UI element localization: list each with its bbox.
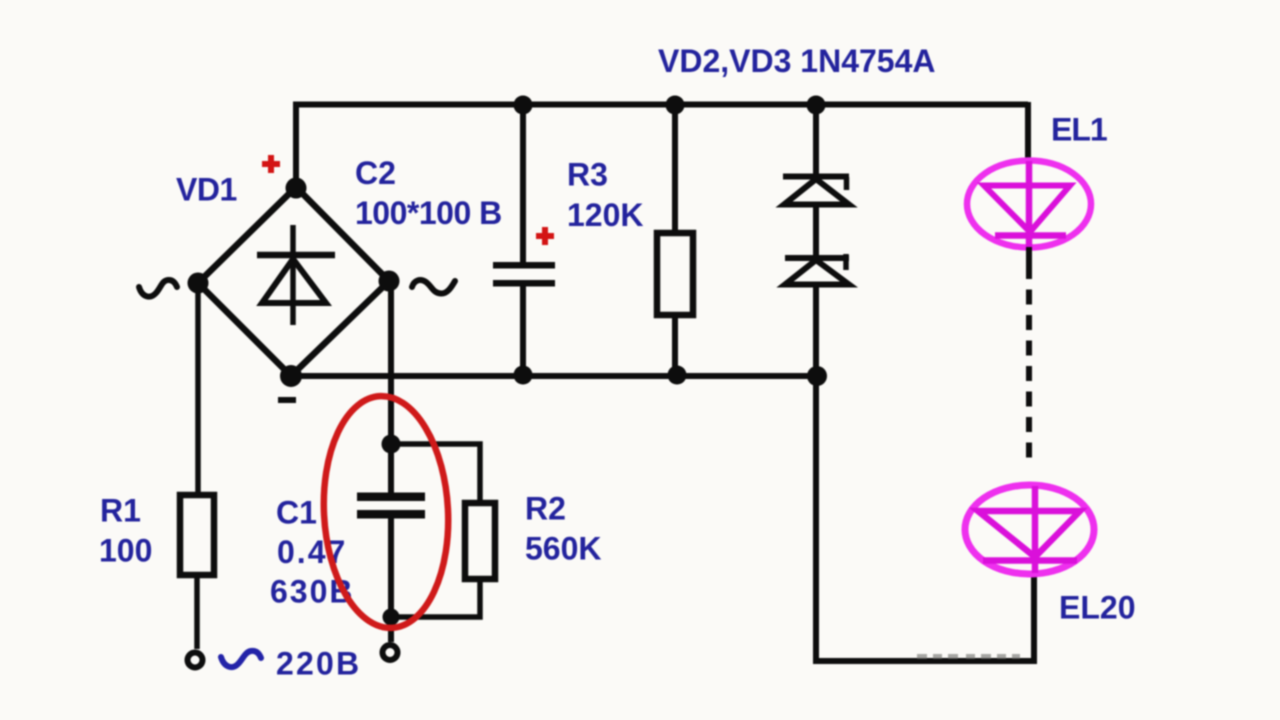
resistor R1 — [180, 495, 214, 575]
AC squiggle blue — [221, 651, 261, 667]
capacitor C2 plates — [493, 262, 555, 269]
polarity plus at C2 — [536, 227, 554, 245]
watermark faint — [917, 654, 1020, 659]
node C1 top — [382, 435, 401, 454]
svg-text:100*100 B: 100*100 B — [355, 195, 502, 231]
wire C2 tap — [520, 105, 526, 377]
svg-text:120K: 120K — [567, 197, 644, 233]
node bridge right — [379, 271, 400, 292]
wire right drop from bridge to C1 — [388, 281, 394, 493]
svg-text:R2: R2 — [525, 491, 566, 527]
resistor R2 — [465, 503, 495, 579]
svg-text:EL1: EL1 — [1051, 112, 1107, 148]
AC tilde right — [412, 280, 455, 293]
node bridge bottom — [280, 365, 302, 387]
polarity plus at bridge — [262, 155, 280, 173]
zener diode VD2 — [783, 177, 849, 205]
wire top rail — [294, 102, 1029, 188]
svg-text:VD1: VD1 — [176, 172, 237, 208]
svg-text:C1: C1 — [276, 495, 317, 531]
wire R3 tap — [672, 105, 678, 377]
svg-text:VD2,VD3 1N4754A: VD2,VD3 1N4754A — [658, 43, 935, 79]
wire left drop to R1 — [195, 283, 201, 495]
wire dashed EL1 to EL20 — [1026, 264, 1032, 462]
node R3 bottom — [668, 366, 687, 385]
node zener top — [807, 96, 826, 115]
capacitor C1 plates — [357, 493, 425, 502]
resistor R3 — [657, 233, 693, 315]
svg-text:R1: R1 — [100, 493, 141, 529]
svg-text:100: 100 — [99, 533, 152, 569]
wire EL1 bottom stub — [1026, 247, 1032, 264]
bridge VD1 inner diode — [257, 225, 335, 325]
polarity minus at bridge — [278, 397, 296, 403]
node zener bottom — [807, 366, 827, 386]
terminal left 220V — [188, 653, 203, 668]
wire zener tap — [813, 105, 819, 377]
zener diode VD3 — [785, 254, 849, 285]
LED EL20 — [965, 485, 1094, 574]
node C2 bottom — [514, 366, 533, 385]
wire R1 to terminal — [194, 575, 200, 649]
node R3 top — [666, 96, 685, 115]
wire R2 branch — [391, 444, 480, 617]
terminal right 220V — [383, 645, 398, 660]
wire bottom rail — [289, 373, 817, 379]
svg-text:C2: C2 — [355, 155, 396, 191]
svg-text:R3: R3 — [567, 157, 608, 193]
svg-text:220B: 220B — [276, 646, 361, 682]
node bridge left — [188, 273, 209, 294]
node C2 top — [514, 96, 533, 115]
LED EL1 — [967, 161, 1091, 248]
svg-text:560K: 560K — [525, 531, 602, 567]
AC tilde left — [139, 280, 177, 297]
wire right drop to EL1 — [1025, 102, 1031, 160]
svg-text:0.47: 0.47 — [277, 534, 347, 570]
svg-text:EL20: EL20 — [1059, 590, 1135, 626]
node C1 bottom — [383, 609, 400, 626]
highlight ellipse red around C1 — [318, 393, 454, 631]
wire LED return loop — [816, 376, 1034, 661]
bridge rectifier VD1 diamond — [198, 187, 389, 376]
node bridge top — [286, 178, 307, 199]
wire C1 bottom to terminal — [388, 518, 394, 642]
